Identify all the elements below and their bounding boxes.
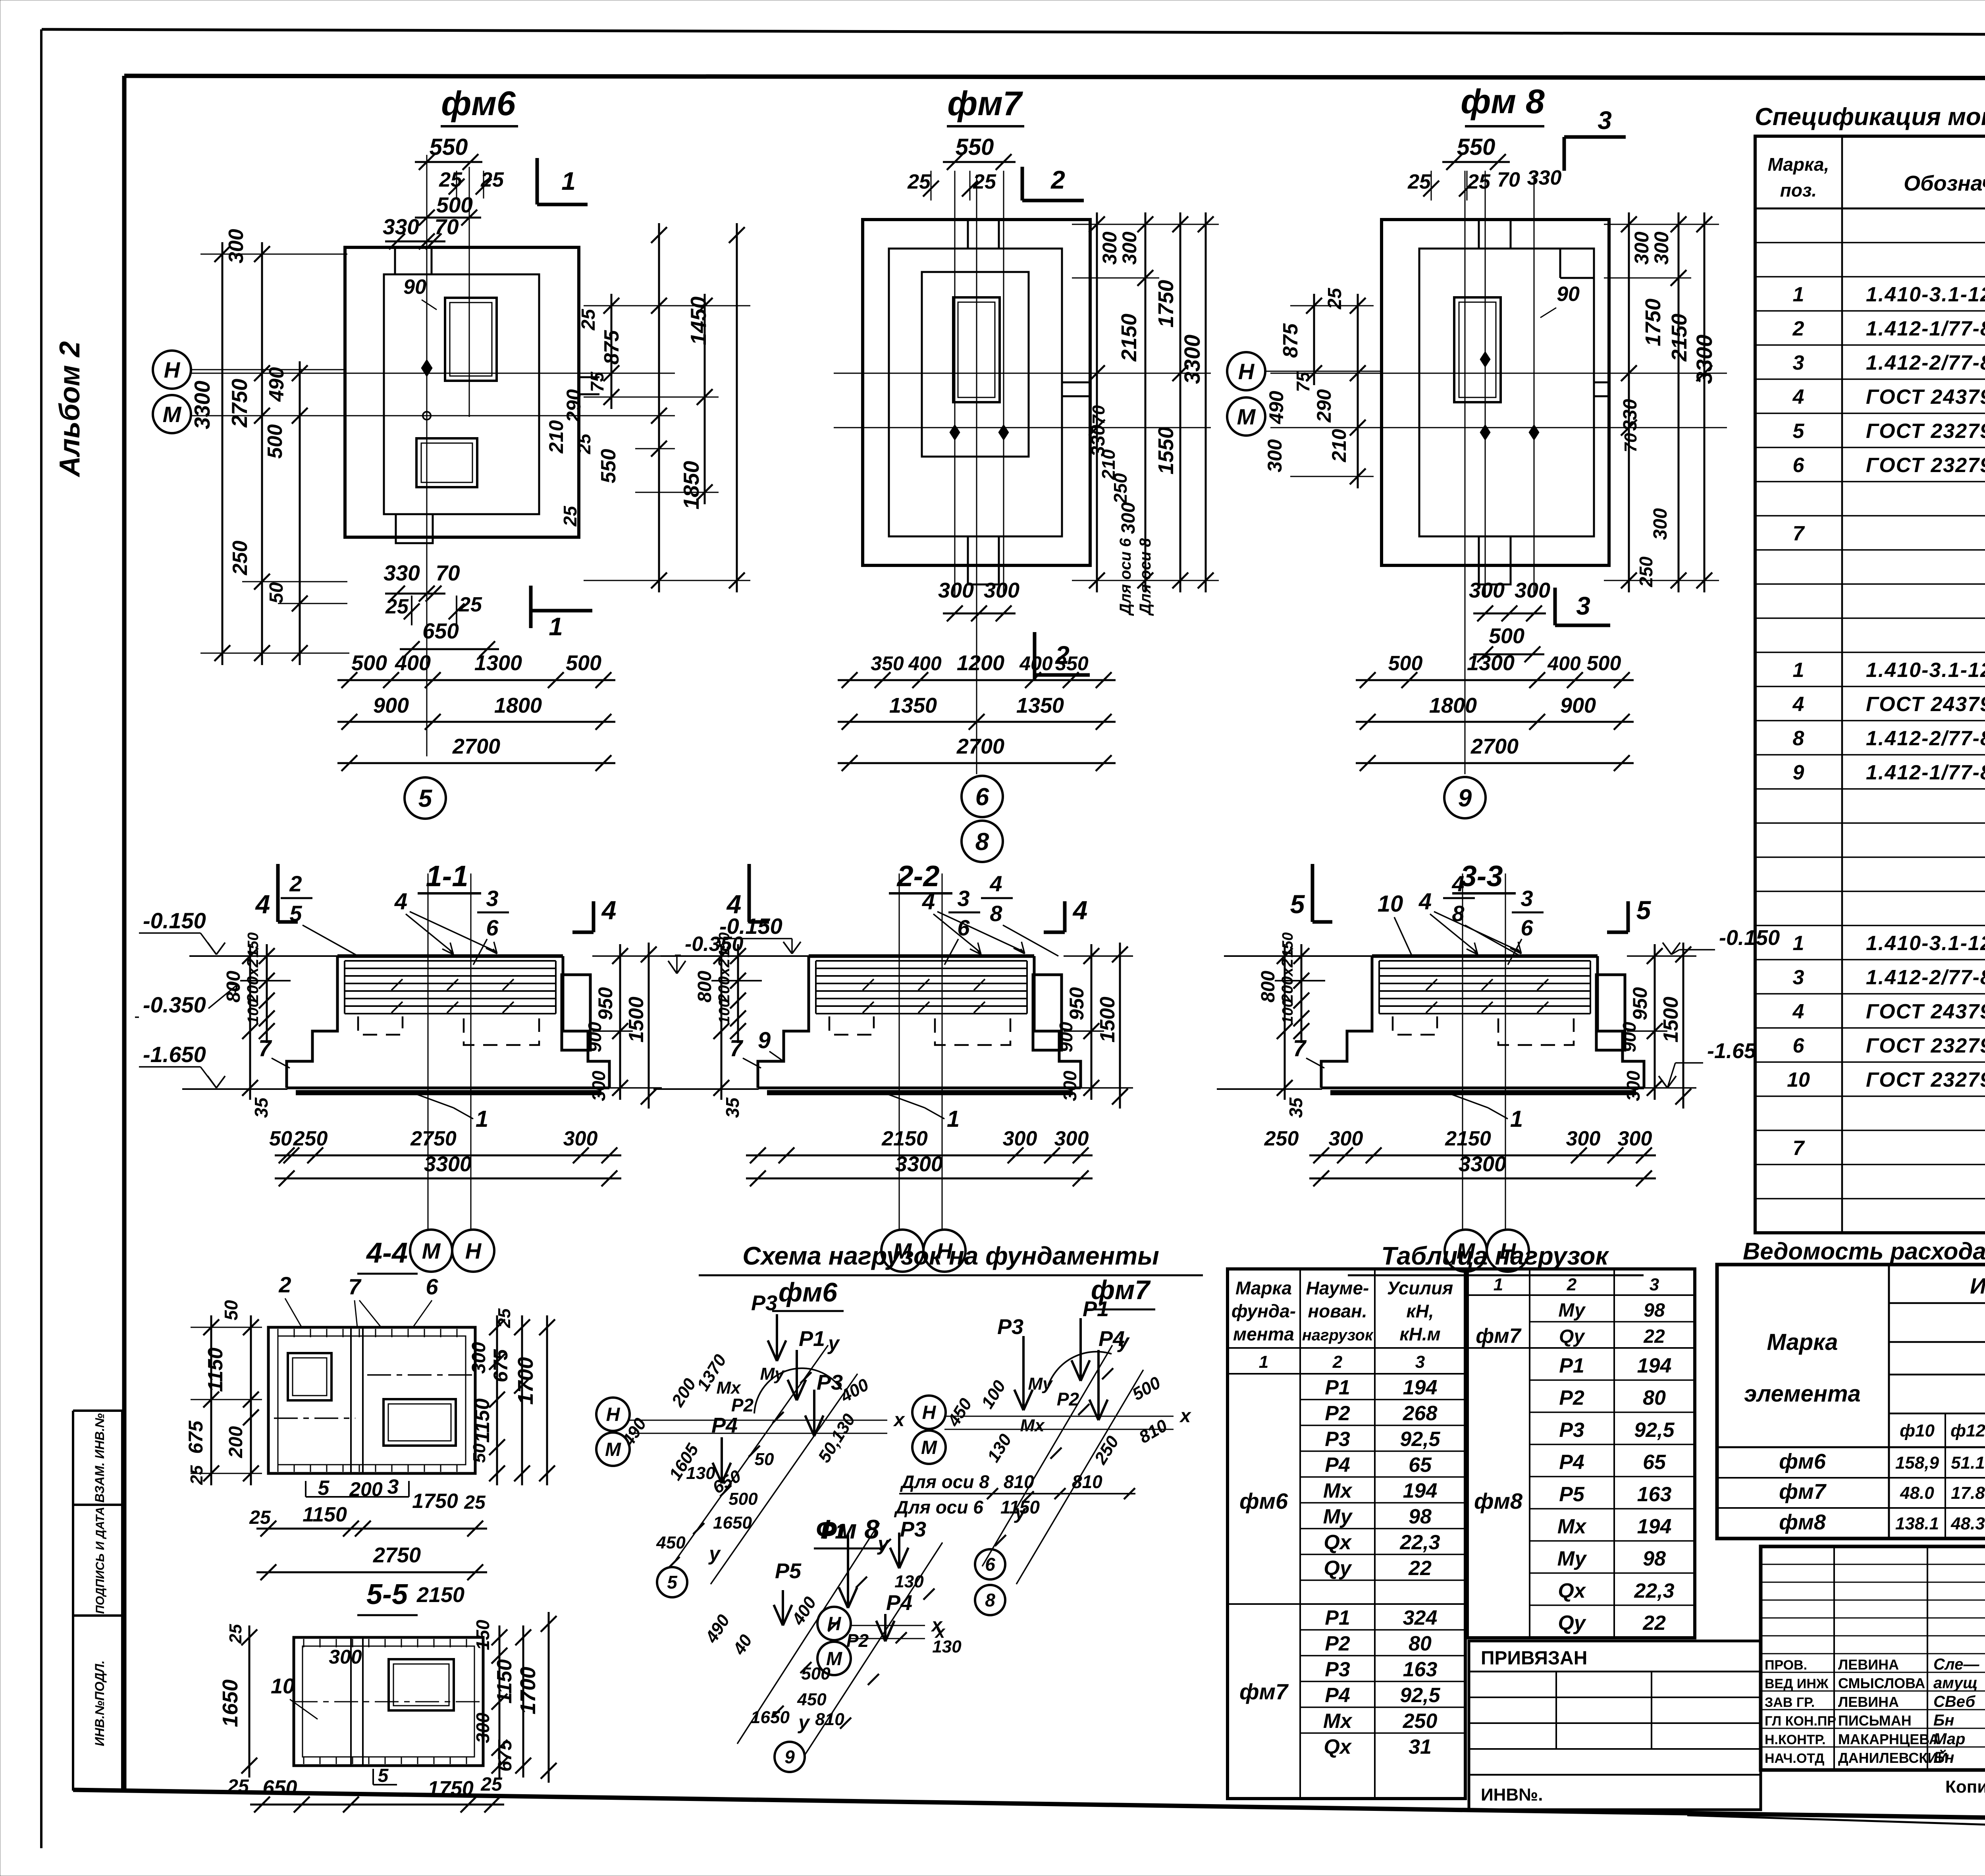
steel table diameter row — [1945, 1413, 1946, 1539]
svg-text:1: 1 — [947, 1106, 960, 1132]
svg-text:фм8: фм8 — [1474, 1488, 1523, 1514]
svg-text:17.8: 17.8 — [1951, 1483, 1985, 1503]
svg-text:300: 300 — [225, 229, 248, 264]
svg-text:ГОСТ 23279-85: ГОСТ 23279-85 — [1866, 420, 1985, 443]
svg-text:у: у — [797, 1711, 810, 1733]
svg-text:Р2: Р2 — [1559, 1386, 1584, 1409]
svg-text:550: 550 — [1457, 134, 1495, 160]
svg-text:200х2: 200х2 — [715, 958, 733, 1003]
svg-text:500: 500 — [566, 651, 601, 675]
section 3-3 axis circles M H — [1445, 1230, 1487, 1272]
svg-text:7: 7 — [1293, 1035, 1307, 1061]
svg-text:1300: 1300 — [474, 651, 522, 675]
svg-text:1550: 1550 — [1154, 427, 1178, 474]
detail 5-5 perimeter ticks — [303, 1639, 304, 1647]
svg-text:200х2: 200х2 — [244, 958, 262, 1003]
plan FM7 bolts — [950, 424, 960, 440]
plan FM8 middle rectangle — [1419, 249, 1594, 536]
plan FM8 section mark 3 bottom — [1553, 588, 1557, 625]
svg-text:200: 200 — [349, 1478, 383, 1500]
section 1-1 cut flag left — [276, 864, 280, 922]
svg-text:1.410-3.1-12: 1.410-3.1-12 — [1866, 283, 1985, 306]
svg-text:194: 194 — [1403, 1479, 1438, 1502]
section 2-2 right upstand — [1033, 975, 1062, 1050]
svg-text:МАКАРНЦЕВА: МАКАРНЦЕВА — [1838, 1731, 1939, 1747]
plan FM6 axis circle 5 — [405, 777, 446, 819]
svg-text:2150: 2150 — [1445, 1127, 1491, 1150]
svg-text:250: 250 — [1264, 1127, 1299, 1150]
svg-text:5: 5 — [378, 1765, 389, 1786]
section 3-3 base bottom — [1321, 1087, 1644, 1089]
svg-text:Р3: Р3 — [751, 1291, 777, 1315]
svg-text:1-1: 1-1 — [426, 860, 468, 893]
load table B grid — [1467, 1269, 1695, 1638]
svg-text:М: М — [921, 1437, 937, 1458]
svg-text:400: 400 — [395, 651, 431, 675]
svg-text:-0.150: -0.150 — [143, 908, 206, 933]
svg-text:90: 90 — [1557, 283, 1580, 306]
svg-text:8: 8 — [990, 901, 1002, 926]
svg-text:2: 2 — [1332, 1352, 1343, 1372]
svg-text:ПОДПИСЬ И ДАТА: ПОДПИСЬ И ДАТА — [94, 1507, 107, 1614]
svg-text:кН.м: кН.м — [1399, 1324, 1440, 1344]
svg-text:300: 300 — [1515, 578, 1550, 602]
svg-text:25: 25 — [480, 1774, 503, 1795]
svg-text:Р4: Р4 — [711, 1413, 738, 1437]
section 1-1 left pocket dashed — [358, 1016, 403, 1035]
svg-text:1150: 1150 — [1000, 1497, 1040, 1517]
svg-text:1: 1 — [1793, 659, 1804, 682]
svg-text:Мх: Мх — [1020, 1416, 1045, 1435]
svg-text:Таблица нагрузок: Таблица нагрузок — [1381, 1242, 1609, 1270]
section 1-1 level -0.350 line — [240, 980, 291, 981]
svg-text:Р1: Р1 — [1325, 1376, 1350, 1399]
svg-text:500: 500 — [436, 193, 473, 217]
svg-text:210: 210 — [545, 420, 567, 454]
svg-text:ВЕД ИНЖ: ВЕД ИНЖ — [1765, 1676, 1829, 1691]
svg-text:Р3: Р3 — [1325, 1428, 1350, 1451]
svg-text:330: 330 — [384, 561, 420, 585]
svg-text:5: 5 — [667, 1572, 678, 1593]
section 2-2 cut flag right — [1063, 901, 1067, 932]
svg-text:-0.150: -0.150 — [1719, 926, 1780, 950]
plan FM7 inner pedestal rectangle — [922, 272, 1029, 457]
svg-text:6: 6 — [957, 915, 970, 940]
svg-text:25: 25 — [227, 1776, 249, 1797]
svg-text:550: 550 — [430, 134, 468, 160]
svg-text:фунда-: фунда- — [1231, 1301, 1296, 1321]
svg-text:Му: Му — [1557, 1547, 1588, 1570]
svg-text:300: 300 — [1469, 578, 1505, 602]
svg-text:2150: 2150 — [1117, 314, 1141, 362]
svg-text:650: 650 — [263, 1776, 297, 1799]
svg-text:Бн: Бн — [1933, 1749, 1954, 1766]
svg-text:Ведомость расхода стали на оди: Ведомость расхода стали на один элемент,… — [1743, 1238, 1985, 1265]
svg-text:3300: 3300 — [1459, 1152, 1506, 1176]
svg-text:50: 50 — [221, 1300, 241, 1321]
svg-text:4: 4 — [1072, 895, 1088, 925]
svg-text:Р5: Р5 — [775, 1559, 802, 1583]
privyazan block — [1469, 1641, 1761, 1810]
plan FM6 section mark 1 top — [536, 158, 539, 204]
svg-text:1: 1 — [1793, 283, 1804, 306]
svg-text:2750: 2750 — [227, 378, 252, 428]
section 2-2 axis verticals — [899, 873, 900, 1229]
section 2-2 pedestal outline — [809, 954, 1034, 958]
svg-text:25: 25 — [226, 1624, 245, 1644]
svg-text:1800: 1800 — [494, 694, 542, 717]
svg-text:Н: Н — [164, 357, 181, 382]
scheme load arrows — [776, 1314, 778, 1361]
svg-text:2: 2 — [1792, 317, 1804, 340]
scheme axis circles H M — [596, 1398, 630, 1431]
svg-text:800: 800 — [223, 971, 244, 1003]
detail 5-5 left dim line — [249, 1625, 251, 1778]
svg-text:3: 3 — [486, 886, 498, 911]
section 1-1 axis verticals — [428, 873, 429, 1229]
svg-text:6: 6 — [1521, 915, 1533, 940]
svg-text:3: 3 — [1521, 886, 1533, 911]
section 1-1 anchor pocket dashed — [464, 1018, 539, 1045]
svg-text:Р3: Р3 — [1559, 1419, 1584, 1442]
svg-text:нагрузок: нагрузок — [1302, 1327, 1374, 1344]
svg-text:Для оси 6: Для оси 6 — [894, 1497, 983, 1517]
svg-text:Альбом 2: Альбом 2 — [54, 341, 86, 477]
svg-text:300: 300 — [1118, 502, 1139, 534]
svg-text:М: М — [605, 1439, 621, 1460]
svg-text:3300: 3300 — [895, 1152, 943, 1176]
svg-text:70: 70 — [434, 214, 459, 239]
svg-text:у: у — [1117, 1330, 1130, 1352]
svg-text:900: 900 — [1056, 1022, 1076, 1052]
svg-text:70: 70 — [436, 561, 460, 585]
svg-text:48.0: 48.0 — [1900, 1483, 1934, 1503]
scheme load arrows — [898, 1533, 900, 1568]
svg-text:4: 4 — [601, 895, 617, 925]
section 2-2 anchor pocket dashed — [935, 1018, 1010, 1045]
load table A grid — [1228, 1269, 1465, 1799]
svg-text:70: 70 — [1621, 433, 1640, 452]
section 1-1 pedestal outline — [337, 954, 563, 958]
svg-text:3: 3 — [1650, 1275, 1659, 1294]
scheme axis number circles — [975, 1549, 1005, 1579]
svg-text:Р2: Р2 — [731, 1395, 754, 1415]
svg-text:фм6: фм6 — [779, 1277, 838, 1307]
svg-text:2: 2 — [1050, 166, 1065, 194]
svg-text:1: 1 — [561, 167, 576, 195]
svg-text:Qх: Qх — [1324, 1735, 1352, 1758]
svg-text:10: 10 — [1378, 891, 1403, 917]
svg-text:Марка: Марка — [1767, 1329, 1838, 1355]
plan FM6 axis M horizontal — [191, 415, 675, 416]
plan FM6 outer slab rectangle — [345, 247, 579, 537]
svg-text:Мх: Мх — [1557, 1515, 1587, 1538]
svg-text:Р2: Р2 — [1057, 1389, 1079, 1409]
plan FM7 axis H horizontal — [834, 373, 1211, 374]
svg-text:300: 300 — [1329, 1127, 1363, 1150]
svg-text:200: 200 — [225, 1426, 247, 1458]
svg-text:550: 550 — [597, 449, 620, 484]
svg-text:Сле—: Сле— — [1933, 1656, 1979, 1673]
plan FM8 bolts — [1480, 424, 1490, 440]
svg-text:5: 5 — [1636, 895, 1652, 925]
svg-text:у: у — [827, 1332, 840, 1354]
specification table grid — [1755, 136, 1985, 1233]
plan FM7 anchor opening — [953, 297, 1000, 402]
plan FM8 step notch top right — [1559, 249, 1561, 278]
svg-text:194: 194 — [1637, 1354, 1672, 1377]
svg-text:Н: Н — [1238, 359, 1255, 384]
plan FM8 axis circle 9 — [1444, 777, 1486, 818]
svg-text:мента: мента — [1233, 1324, 1294, 1344]
svg-text:М: М — [422, 1238, 441, 1263]
svg-text:ГОСТ 23279-85: ГОСТ 23279-85 — [1866, 1068, 1985, 1091]
svg-text:3: 3 — [1793, 351, 1804, 374]
svg-text:1750: 1750 — [412, 1490, 458, 1513]
svg-text:Qу: Qу — [1324, 1557, 1352, 1580]
svg-text:300: 300 — [1630, 231, 1653, 265]
scheme axis circles H M — [817, 1607, 851, 1640]
svg-text:10: 10 — [271, 1674, 295, 1698]
svg-text:7: 7 — [258, 1035, 272, 1061]
svg-text:100: 100 — [245, 999, 262, 1024]
svg-text:500: 500 — [264, 424, 287, 459]
plan FM7 top notch — [967, 220, 969, 249]
section 3-3 cut flag right — [1627, 901, 1630, 932]
svg-text:50: 50 — [269, 1127, 292, 1150]
svg-text:1.410-3.1-12: 1.410-3.1-12 — [1866, 932, 1985, 955]
svg-text:1150: 1150 — [303, 1503, 347, 1526]
svg-text:100: 100 — [716, 999, 733, 1024]
svg-text:1500: 1500 — [1096, 997, 1119, 1043]
svg-text:НАЧ.ОТД: НАЧ.ОТД — [1765, 1751, 1824, 1766]
svg-text:4: 4 — [394, 889, 407, 914]
svg-text:25: 25 — [560, 505, 580, 527]
svg-text:ПИСЬМАН: ПИСЬМАН — [1838, 1712, 1912, 1729]
svg-text:500: 500 — [351, 651, 387, 675]
detail 4-4 inner dashed rect — [278, 1336, 466, 1465]
scheme x axis lines — [850, 1625, 925, 1626]
svg-text:2: 2 — [1055, 641, 1070, 669]
svg-text:300: 300 — [938, 578, 974, 602]
section 2-2 ground line — [661, 955, 809, 957]
svg-text:250: 250 — [1110, 473, 1131, 504]
svg-text:5: 5 — [289, 901, 302, 926]
svg-text:ГЛ КОН.ПР: ГЛ КОН.ПР — [1765, 1714, 1836, 1729]
svg-text:Р4: Р4 — [1559, 1451, 1584, 1474]
svg-text:50: 50 — [266, 582, 287, 603]
svg-text:8: 8 — [985, 1590, 995, 1610]
svg-text:500: 500 — [1388, 652, 1423, 675]
plan FM6 axis circle H — [153, 351, 191, 389]
svg-text:25: 25 — [187, 1465, 206, 1485]
svg-text:35: 35 — [722, 1097, 743, 1118]
svg-text:300: 300 — [1118, 231, 1141, 265]
section 3-3 bedding layer — [1330, 1090, 1636, 1095]
section 2-2 bedding layer — [767, 1090, 1073, 1095]
svg-text:65: 65 — [1409, 1454, 1432, 1477]
svg-text:7: 7 — [1793, 522, 1805, 545]
svg-text:2: 2 — [1567, 1275, 1577, 1294]
svg-text:650: 650 — [422, 619, 459, 643]
svg-text:300: 300 — [1623, 1070, 1644, 1101]
svg-text:1: 1 — [1259, 1352, 1268, 1372]
plan FM6 bottom notch — [396, 514, 433, 543]
svg-text:3: 3 — [957, 886, 969, 911]
svg-text:6: 6 — [985, 1554, 995, 1575]
svg-text:1800: 1800 — [1429, 694, 1477, 717]
svg-text:фм 8: фм 8 — [1461, 83, 1545, 121]
svg-text:Обозначение: Обозначение — [1904, 172, 1985, 195]
section 3-3 right upstand — [1596, 975, 1625, 1050]
scheme x axis lines — [944, 1416, 1174, 1417]
svg-text:Qх: Qх — [1558, 1579, 1586, 1602]
plan FM6 anchor opening upper — [445, 298, 497, 381]
svg-text:490: 490 — [265, 367, 288, 402]
svg-text:1: 1 — [476, 1106, 488, 1132]
svg-text:ф12: ф12 — [1950, 1421, 1985, 1440]
svg-text:Науме-: Науме- — [1306, 1278, 1369, 1298]
scheme FM6 moment arc — [754, 1368, 842, 1413]
svg-text:300: 300 — [588, 1070, 609, 1101]
svg-text:22: 22 — [1408, 1557, 1432, 1580]
svg-text:22,3: 22,3 — [1399, 1531, 1440, 1554]
svg-text:6: 6 — [426, 1274, 438, 1299]
svg-text:Для оси 8: Для оси 8 — [900, 1471, 989, 1492]
svg-text:450: 450 — [656, 1533, 686, 1552]
svg-text:810: 810 — [1004, 1471, 1034, 1492]
section 2-2 left pocket dashed — [829, 1016, 874, 1035]
svg-text:268: 268 — [1403, 1402, 1438, 1425]
svg-text:163: 163 — [1403, 1658, 1438, 1681]
svg-text:300: 300 — [563, 1127, 598, 1150]
svg-text:1: 1 — [1494, 1275, 1503, 1294]
detail 4-4 bottom bracket 5 3 — [305, 1481, 306, 1497]
svg-text:330: 330 — [1527, 166, 1562, 189]
svg-text:ЛЕВИНА: ЛЕВИНА — [1838, 1694, 1899, 1710]
svg-text:900: 900 — [1619, 1022, 1640, 1052]
svg-text:1.412-2/77-8,3-020: 1.412-2/77-8,3-020 — [1866, 966, 1985, 989]
svg-text:90: 90 — [403, 276, 426, 299]
svg-text:1.412-2/77-8.3-040: 1.412-2/77-8.3-040 — [1866, 727, 1985, 750]
svg-text:Для оси 8: Для оси 8 — [1137, 538, 1154, 616]
svg-text:800: 800 — [694, 971, 715, 1003]
svg-text:1650: 1650 — [751, 1708, 790, 1727]
svg-text:Р1: Р1 — [799, 1327, 825, 1351]
svg-text:138.1: 138.1 — [1895, 1514, 1939, 1533]
svg-text:300: 300 — [1264, 439, 1286, 472]
svg-text:9: 9 — [1458, 785, 1472, 812]
plan FM6 top notch — [394, 247, 396, 274]
svg-text:150: 150 — [472, 1620, 493, 1650]
svg-text:1500: 1500 — [625, 997, 648, 1043]
svg-text:4: 4 — [255, 889, 270, 919]
plan FM8 bottom notch — [1479, 536, 1511, 584]
svg-text:3: 3 — [1793, 966, 1804, 989]
svg-text:Р2: Р2 — [846, 1630, 869, 1651]
svg-text:7: 7 — [1793, 1137, 1805, 1160]
svg-text:25: 25 — [385, 595, 409, 618]
svg-text:25: 25 — [574, 433, 594, 455]
detail 4-4 small rect right — [384, 1399, 456, 1446]
svg-text:ГОСТ 23279-85: ГОСТ 23279-85 — [1866, 454, 1985, 477]
scheme axis circles H M — [912, 1396, 946, 1429]
svg-text:2-2: 2-2 — [896, 860, 940, 893]
svg-text:200х2: 200х2 — [1279, 958, 1296, 1003]
svg-text:300: 300 — [472, 1712, 493, 1743]
plan FM8 anchor opening — [1454, 297, 1501, 402]
section 1-1 cut flag right — [592, 901, 595, 932]
svg-text:50: 50 — [470, 1443, 489, 1463]
svg-text:2: 2 — [289, 871, 302, 896]
section 2-2 rebar mesh — [816, 960, 1027, 962]
plan FM6 section mark 1 bottom — [529, 586, 533, 628]
section 3-3 axis verticals — [1462, 873, 1463, 1229]
svg-text:250: 250 — [1636, 556, 1656, 587]
svg-text:фм7: фм7 — [1239, 1679, 1289, 1704]
section 2-2 level -0.350 line — [711, 980, 762, 981]
svg-text:ИНВ№.: ИНВ№. — [1481, 1785, 1543, 1805]
svg-text:70: 70 — [1497, 168, 1520, 191]
svg-text:х: х — [1179, 1406, 1192, 1427]
svg-text:3300: 3300 — [1179, 335, 1204, 384]
svg-text:1750: 1750 — [1641, 299, 1665, 346]
main drawing frame — [124, 76, 1985, 79]
svg-text:875: 875 — [1279, 323, 1302, 358]
section 1-1 axis circles M H — [410, 1230, 452, 1272]
plan FM7 middle rectangle — [889, 249, 1062, 536]
svg-text:1750: 1750 — [1154, 280, 1178, 328]
svg-text:Н.КОНТР.: Н.КОНТР. — [1765, 1732, 1826, 1747]
svg-text:1350: 1350 — [889, 694, 937, 717]
svg-text:130: 130 — [894, 1572, 924, 1591]
svg-text:950: 950 — [1629, 987, 1651, 1020]
svg-text:92,5: 92,5 — [1400, 1684, 1440, 1707]
svg-text:300: 300 — [1054, 1127, 1089, 1150]
svg-text:300: 300 — [1060, 1070, 1080, 1101]
svg-text:Р2: Р2 — [1325, 1402, 1350, 1425]
svg-text:1150: 1150 — [204, 1348, 227, 1392]
svg-text:25: 25 — [1407, 170, 1431, 193]
plan FM7 axis M horizontal — [834, 427, 1211, 428]
svg-text:ДАНИЛЕВСКИЙ: ДАНИЛЕВСКИЙ — [1838, 1749, 1948, 1766]
svg-text:фм6: фм6 — [1779, 1450, 1826, 1473]
detail 4-4 small rect left — [288, 1353, 331, 1400]
svg-text:3300: 3300 — [190, 380, 214, 429]
svg-text:5-5: 5-5 — [366, 1579, 408, 1610]
svg-text:6: 6 — [1793, 454, 1805, 477]
svg-text:СМЫСЛОВА: СМЫСЛОВА — [1838, 1675, 1925, 1691]
svg-text:92,5: 92,5 — [1634, 1419, 1675, 1442]
svg-text:25: 25 — [249, 1507, 271, 1528]
svg-text:35: 35 — [1285, 1097, 1306, 1118]
svg-text:2: 2 — [278, 1272, 291, 1297]
svg-text:300: 300 — [1650, 508, 1671, 540]
plan FM8 top notch — [1478, 220, 1480, 249]
svg-text:1.410-3.1-12: 1.410-3.1-12 — [1866, 659, 1985, 682]
svg-text:Мх: Мх — [1323, 1710, 1353, 1733]
svg-text:300: 300 — [1566, 1127, 1601, 1150]
svg-text:М: М — [163, 402, 182, 427]
svg-text:амущ: амущ — [1933, 1674, 1977, 1692]
svg-text:4: 4 — [1792, 386, 1804, 409]
svg-text:35: 35 — [251, 1097, 272, 1118]
scheme load arrows — [1022, 1336, 1025, 1410]
svg-text:98: 98 — [1644, 1300, 1665, 1321]
plan FM8 outer slab rectangle — [1382, 220, 1609, 565]
section 3-3 pedestal outline — [1372, 954, 1598, 958]
svg-text:Р3: Р3 — [900, 1517, 926, 1541]
